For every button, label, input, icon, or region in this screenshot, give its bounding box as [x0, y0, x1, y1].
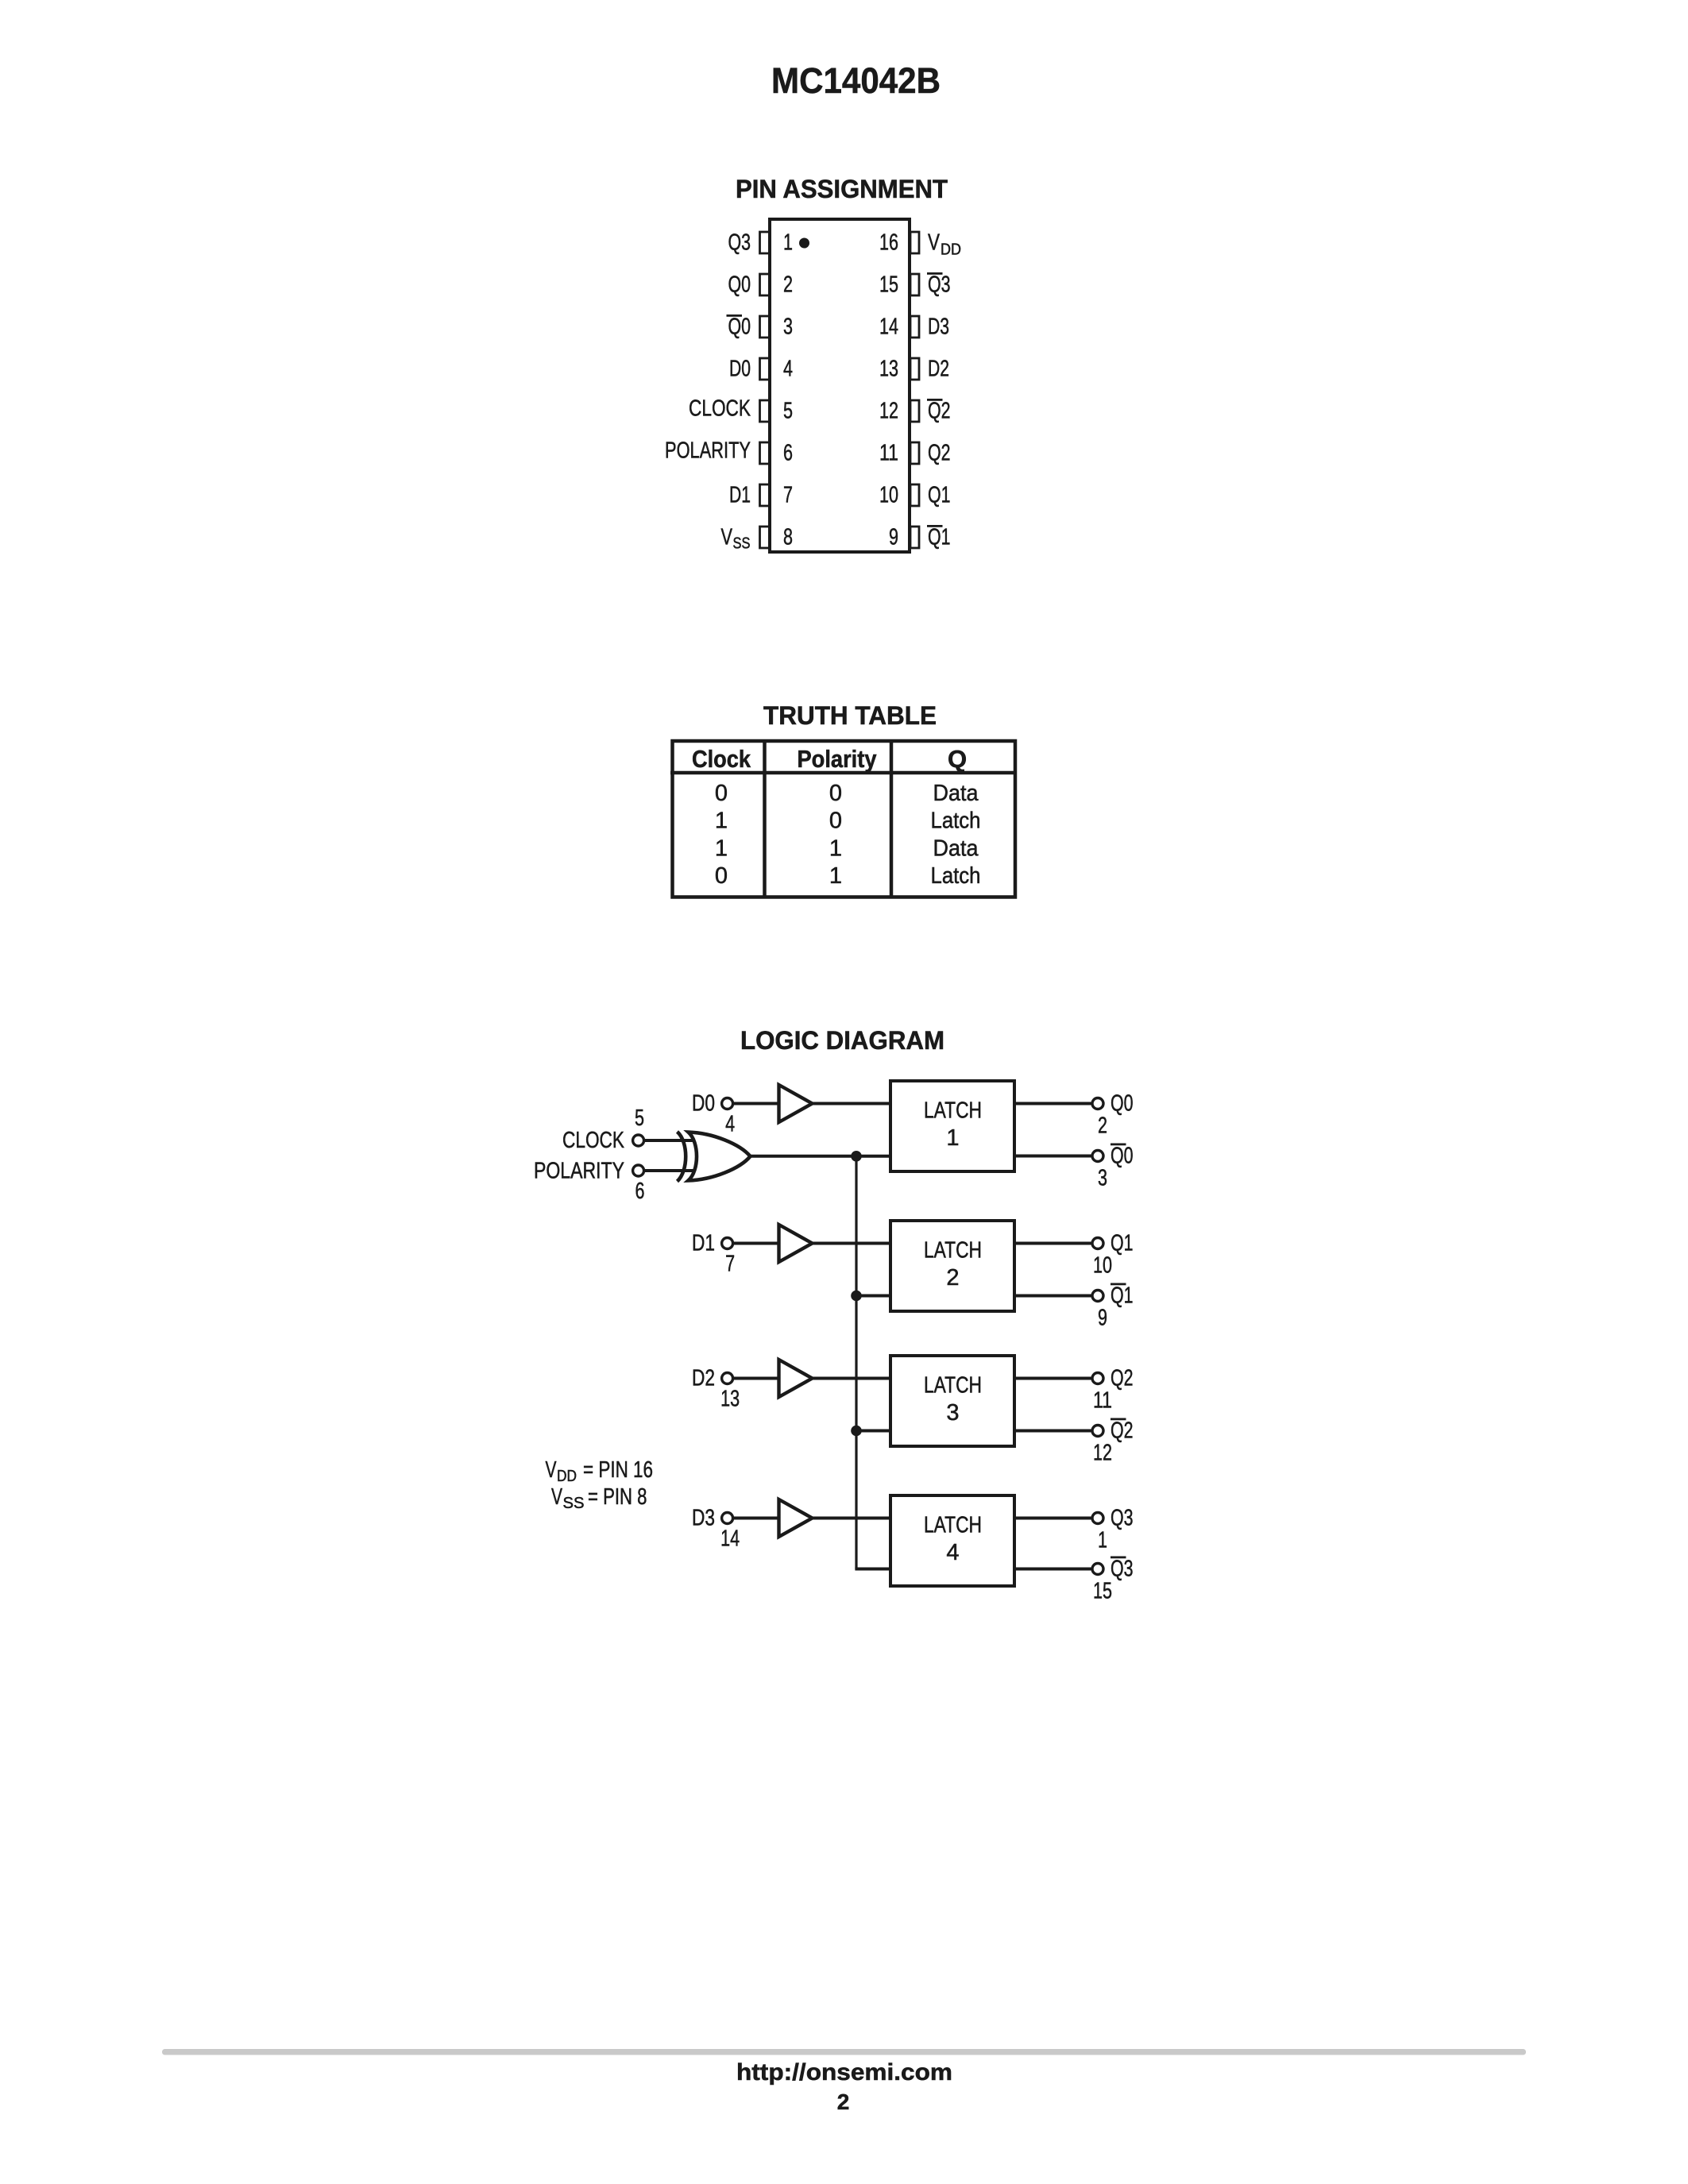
- svg-text:Q1: Q1: [1111, 1283, 1134, 1309]
- svg-text:10: 10: [1093, 1253, 1112, 1279]
- svg-text:1: 1: [829, 835, 842, 861]
- svg-text:SS: SS: [563, 1495, 585, 1512]
- svg-text:D2: D2: [928, 357, 949, 382]
- svg-text:Data: Data: [933, 781, 979, 806]
- svg-text:7: 7: [783, 483, 793, 508]
- svg-text:4: 4: [725, 1112, 735, 1137]
- svg-text:Q0: Q0: [728, 272, 751, 298]
- svg-text:PIN ASSIGNMENT: PIN ASSIGNMENT: [736, 175, 948, 203]
- svg-text:6: 6: [635, 1179, 645, 1204]
- svg-text:Q3: Q3: [728, 230, 751, 256]
- svg-text:Q1: Q1: [928, 483, 951, 508]
- svg-text:10: 10: [879, 483, 898, 508]
- svg-text:Polarity: Polarity: [798, 745, 878, 773]
- svg-text:2: 2: [946, 1265, 959, 1291]
- svg-text:LATCH: LATCH: [924, 1098, 982, 1124]
- svg-text:15: 15: [879, 272, 898, 298]
- svg-text:12: 12: [879, 399, 898, 424]
- svg-text:Q3: Q3: [1111, 1557, 1134, 1582]
- svg-text:7: 7: [725, 1252, 735, 1277]
- svg-text:2: 2: [783, 272, 793, 298]
- svg-text:3: 3: [783, 314, 793, 340]
- svg-text:Q: Q: [948, 745, 967, 773]
- svg-text:8: 8: [783, 525, 793, 550]
- svg-text:9: 9: [1098, 1306, 1107, 1331]
- svg-text:Clock: Clock: [692, 745, 751, 773]
- svg-text:4: 4: [783, 357, 793, 382]
- svg-text:Latch: Latch: [931, 863, 981, 889]
- svg-text:5: 5: [783, 399, 793, 424]
- svg-text:LATCH: LATCH: [924, 1513, 982, 1538]
- svg-text:1: 1: [783, 230, 793, 256]
- svg-text:0: 0: [829, 781, 842, 806]
- svg-text:Q2: Q2: [928, 399, 951, 424]
- svg-text:= PIN 8: = PIN 8: [588, 1484, 647, 1510]
- svg-text:D2: D2: [692, 1366, 715, 1391]
- svg-text:DD: DD: [557, 1468, 577, 1485]
- svg-text:1: 1: [829, 863, 842, 889]
- svg-text:12: 12: [1093, 1441, 1112, 1466]
- svg-text:9: 9: [889, 525, 898, 550]
- svg-text:0: 0: [829, 808, 842, 834]
- svg-text:1: 1: [715, 835, 728, 861]
- svg-text:LOGIC DIAGRAM: LOGIC DIAGRAM: [740, 1026, 944, 1055]
- svg-text:Q0: Q0: [1111, 1144, 1134, 1169]
- svg-text:= PIN 16: = PIN 16: [583, 1457, 653, 1483]
- svg-text:0: 0: [715, 863, 728, 889]
- svg-text:1: 1: [715, 808, 728, 834]
- svg-text:D0: D0: [692, 1091, 715, 1117]
- svg-text:6: 6: [783, 441, 793, 466]
- svg-text:D3: D3: [928, 314, 949, 340]
- svg-text:LATCH: LATCH: [924, 1238, 982, 1264]
- svg-text:14: 14: [879, 314, 898, 340]
- svg-text:13: 13: [879, 357, 898, 382]
- svg-text:POLARITY: POLARITY: [534, 1159, 624, 1184]
- svg-text:D1: D1: [692, 1231, 715, 1256]
- svg-text:D1: D1: [729, 483, 751, 508]
- svg-text:TRUTH TABLE: TRUTH TABLE: [763, 701, 937, 730]
- svg-text:Q2: Q2: [1111, 1366, 1134, 1391]
- svg-text:11: 11: [1093, 1388, 1112, 1414]
- svg-text:V: V: [928, 230, 941, 256]
- svg-text:2: 2: [837, 2089, 850, 2114]
- svg-text:DD: DD: [941, 241, 961, 259]
- svg-text:13: 13: [720, 1387, 740, 1412]
- svg-text:CLOCK: CLOCK: [689, 396, 751, 422]
- svg-text:Q3: Q3: [1111, 1506, 1134, 1531]
- svg-text:16: 16: [879, 230, 898, 256]
- svg-text:V: V: [546, 1457, 557, 1483]
- svg-text:D3: D3: [692, 1506, 715, 1531]
- svg-text:14: 14: [720, 1526, 740, 1552]
- svg-text:D0: D0: [729, 357, 751, 382]
- svg-text:V: V: [551, 1484, 562, 1510]
- svg-text:http://onsemi.com: http://onsemi.com: [736, 2059, 952, 2086]
- svg-text:CLOCK: CLOCK: [562, 1128, 625, 1153]
- svg-text:0: 0: [715, 781, 728, 806]
- svg-text:15: 15: [1093, 1579, 1112, 1604]
- svg-text:5: 5: [635, 1106, 644, 1131]
- svg-text:Q1: Q1: [1111, 1231, 1134, 1256]
- svg-text:1: 1: [946, 1125, 959, 1151]
- svg-text:Latch: Latch: [931, 808, 981, 834]
- svg-text:Q0: Q0: [1111, 1091, 1134, 1117]
- svg-text:3: 3: [1098, 1166, 1107, 1191]
- svg-text:Data: Data: [933, 835, 979, 861]
- svg-text:Q2: Q2: [1111, 1418, 1134, 1444]
- svg-text:LATCH: LATCH: [924, 1373, 982, 1399]
- svg-text:4: 4: [946, 1540, 959, 1565]
- svg-text:Q1: Q1: [928, 525, 951, 550]
- svg-text:V: V: [721, 525, 733, 550]
- svg-text:11: 11: [879, 441, 898, 466]
- svg-text:SS: SS: [733, 535, 751, 553]
- svg-text:1: 1: [1098, 1528, 1107, 1553]
- svg-text:2: 2: [1098, 1113, 1107, 1139]
- svg-text:Q3: Q3: [928, 272, 951, 298]
- svg-text:POLARITY: POLARITY: [665, 438, 751, 464]
- svg-text:Q0: Q0: [728, 314, 751, 340]
- svg-text:MC14042B: MC14042B: [771, 60, 941, 101]
- svg-text:3: 3: [946, 1400, 959, 1426]
- svg-text:Q2: Q2: [928, 441, 951, 466]
